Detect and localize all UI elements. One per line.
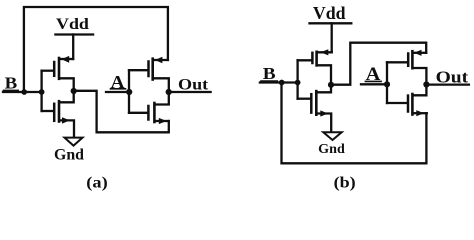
svg-text:Out: Out xyxy=(178,76,209,93)
svg-text:A: A xyxy=(366,64,381,85)
svg-text:B: B xyxy=(263,64,276,83)
svg-text:A: A xyxy=(111,72,125,92)
svg-text:Out: Out xyxy=(436,68,469,87)
svg-text:(a): (a) xyxy=(86,175,107,192)
svg-text:Vdd: Vdd xyxy=(313,3,346,23)
svg-text:Gnd: Gnd xyxy=(54,146,84,163)
svg-text:B: B xyxy=(5,74,18,93)
svg-text:(b): (b) xyxy=(334,175,356,192)
svg-text:Gnd: Gnd xyxy=(318,142,345,157)
svg-text:Vdd: Vdd xyxy=(56,16,89,33)
